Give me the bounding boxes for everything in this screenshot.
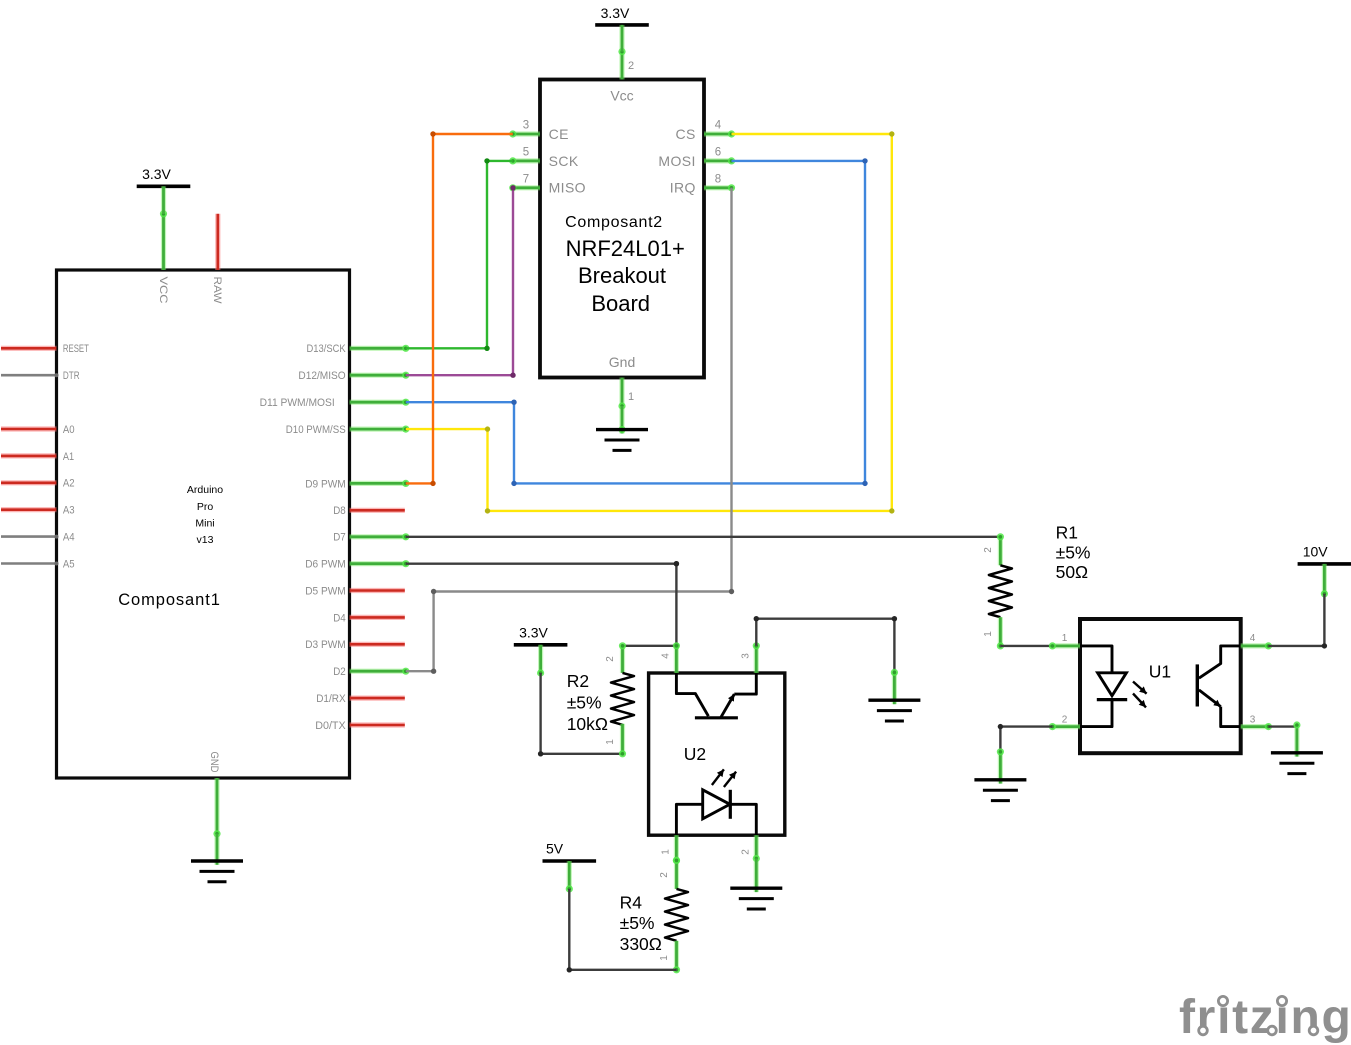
svg-text:4: 4 bbox=[661, 653, 672, 659]
svg-text:U1: U1 bbox=[1149, 661, 1171, 681]
pin D11 PWM/MOSI (Composant1) bbox=[260, 397, 410, 409]
wire 10V stub (green) bbox=[1321, 564, 1328, 598]
pin A3 (Composant1) bbox=[1, 505, 75, 517]
svg-text:6: 6 bbox=[715, 146, 721, 158]
svg-text:10V: 10V bbox=[1303, 544, 1329, 560]
IC Composant1 Arduino Pro Mini body bbox=[57, 270, 350, 778]
svg-text:CE: CE bbox=[549, 126, 569, 142]
ground (U2 pin3 net) bbox=[868, 700, 920, 721]
svg-text:fritzing: fritzing bbox=[1179, 991, 1351, 1044]
svg-text:5: 5 bbox=[523, 146, 529, 158]
wire 5V to R4 pin1 (black) bbox=[567, 889, 677, 973]
svg-text:A5: A5 bbox=[63, 558, 75, 570]
pin D1/RX (Composant1) bbox=[316, 693, 405, 705]
svg-text:D12/MISO: D12/MISO bbox=[298, 370, 346, 382]
fritzing logo bbox=[1179, 991, 1351, 1044]
wire D6 PWM to U2 pin4 (black) bbox=[406, 561, 679, 646]
svg-text:D6 PWM: D6 PWM bbox=[305, 559, 346, 571]
svg-text:1: 1 bbox=[659, 955, 670, 961]
svg-text:4: 4 bbox=[1250, 633, 1256, 644]
svg-text:50Ω: 50Ω bbox=[1056, 562, 1089, 582]
svg-text:NRF24L01+: NRF24L01+ bbox=[566, 236, 685, 261]
svg-text:R4: R4 bbox=[620, 893, 643, 913]
wire R2 top to U2 pin4 node (black) bbox=[623, 643, 680, 648]
svg-text:D4: D4 bbox=[333, 612, 346, 624]
svg-text:A4: A4 bbox=[63, 532, 75, 544]
svg-text:A1: A1 bbox=[63, 451, 74, 463]
svg-text:±5%: ±5% bbox=[567, 693, 602, 713]
svg-text:1: 1 bbox=[605, 739, 616, 745]
power +5V symbol bbox=[543, 841, 597, 862]
svg-text:1: 1 bbox=[983, 631, 994, 637]
svg-text:MOSI: MOSI bbox=[658, 153, 695, 169]
svg-text:Composant1: Composant1 bbox=[118, 591, 221, 609]
svg-text:3.3V: 3.3V bbox=[142, 166, 171, 182]
svg-text:Gnd: Gnd bbox=[609, 354, 635, 370]
svg-text:IRQ: IRQ bbox=[670, 180, 696, 196]
pin 6 (Composant2 right) bbox=[704, 146, 735, 164]
svg-text:R1: R1 bbox=[1056, 523, 1078, 543]
pin RAW (Composant1 top) bbox=[211, 214, 223, 304]
svg-text:D3 PWM: D3 PWM bbox=[305, 639, 346, 651]
svg-text:±5%: ±5% bbox=[1056, 543, 1091, 563]
pin 1 (U1) bbox=[1049, 633, 1080, 650]
wire D9 PWM to NRF CE (orange) bbox=[406, 131, 513, 486]
svg-text:v13: v13 bbox=[197, 534, 214, 546]
svg-text:1: 1 bbox=[661, 849, 672, 855]
svg-text:D7: D7 bbox=[333, 532, 346, 544]
svg-text:2: 2 bbox=[659, 872, 670, 878]
pin A4 (Composant1) bbox=[1, 532, 75, 544]
pin D12/MISO (Composant1) bbox=[298, 370, 409, 382]
pin A5 (Composant1) bbox=[1, 558, 75, 570]
optocoupler U1 body bbox=[1080, 619, 1241, 753]
pin D13/SCK (Composant1) bbox=[307, 343, 410, 355]
pin D4 (Composant1) bbox=[333, 612, 405, 624]
U2 phototransistor bbox=[676, 673, 756, 718]
pin VCC (Composant1 top) bbox=[157, 210, 169, 303]
optocoupler U2 body bbox=[649, 673, 785, 835]
svg-text:2: 2 bbox=[983, 547, 994, 553]
wire D13/SCK to NRF SCK (green) bbox=[406, 158, 513, 351]
svg-text:2: 2 bbox=[605, 656, 616, 662]
wire U2 pin2 to ground (green) bbox=[754, 859, 759, 893]
wire 3.3V to NRF Vcc (green) bbox=[619, 25, 624, 52]
pin RESET (Composant1) bbox=[1, 343, 89, 355]
svg-text:CS: CS bbox=[676, 126, 696, 142]
pin D3 PWM (Composant1) bbox=[305, 639, 405, 651]
U1 LED bbox=[1080, 646, 1147, 727]
svg-text:MISO: MISO bbox=[549, 180, 586, 196]
svg-text:2: 2 bbox=[741, 849, 752, 855]
svg-text:Pro: Pro bbox=[197, 501, 214, 513]
svg-text:GND: GND bbox=[208, 752, 220, 773]
wire NRF IRQ to D2 (gray) bbox=[406, 188, 734, 674]
wire U1 pin3 to ground (black) bbox=[1268, 725, 1297, 727]
svg-text:3.3V: 3.3V bbox=[519, 625, 548, 641]
svg-text:D5 PWM: D5 PWM bbox=[305, 585, 346, 597]
pin D2 (Composant1) bbox=[333, 666, 409, 678]
svg-text:D1/RX: D1/RX bbox=[316, 693, 346, 705]
resistor R4 330 bbox=[620, 857, 688, 974]
svg-text:Arduino: Arduino bbox=[187, 484, 223, 496]
svg-text:3: 3 bbox=[741, 653, 752, 659]
pin A2 (Composant1) bbox=[1, 478, 75, 490]
pin 2 (U2) bbox=[741, 835, 760, 862]
svg-text:D2: D2 bbox=[333, 666, 346, 678]
pin 8 (Composant2 right) bbox=[704, 173, 735, 191]
wire NRF Gnd to ground (green) bbox=[618, 406, 625, 434]
wire D12/MISO to NRF MISO (purple) bbox=[406, 185, 516, 378]
pin 2 Vcc (Composant2 top) bbox=[618, 48, 634, 80]
pin D10 PWM/SS (Composant1) bbox=[286, 424, 410, 436]
svg-text:10kΩ: 10kΩ bbox=[567, 714, 608, 734]
wire D7 to R1 (black) bbox=[406, 536, 1001, 538]
pin DTR (Composant1) bbox=[1, 370, 80, 382]
pin D7 (Composant1) bbox=[333, 532, 409, 544]
svg-text:VCC: VCC bbox=[157, 277, 169, 304]
power +3.3V symbol (R2 supply) bbox=[514, 625, 568, 645]
svg-text:D10 PWM/SS: D10 PWM/SS bbox=[286, 424, 346, 436]
pin 1 (U2) bbox=[661, 835, 681, 864]
wire D11 PWM/MOSI to NRF MOSI (blue) bbox=[406, 158, 868, 486]
pin D9 PWM (Composant1) bbox=[305, 478, 409, 490]
svg-text:Mini: Mini bbox=[195, 517, 214, 529]
svg-text:D8: D8 bbox=[333, 505, 346, 517]
svg-text:1: 1 bbox=[1062, 633, 1068, 644]
svg-text:R2: R2 bbox=[567, 671, 589, 691]
svg-text:D11 PWM/MOSI: D11 PWM/MOSI bbox=[260, 397, 335, 409]
svg-text:D13/SCK: D13/SCK bbox=[307, 343, 347, 355]
power +10V symbol bbox=[1298, 544, 1351, 564]
pin D8 (Composant1) bbox=[333, 505, 405, 517]
svg-text:D9 PWM: D9 PWM bbox=[305, 478, 346, 490]
svg-text:5V: 5V bbox=[546, 841, 564, 857]
pin D5 PWM (Composant1) bbox=[305, 585, 405, 597]
wire ground stub U1 pin2 (green) bbox=[997, 748, 1004, 783]
pin 3 (U2) bbox=[741, 642, 760, 673]
ground (Arduino GND) bbox=[191, 861, 243, 882]
svg-text:SCK: SCK bbox=[549, 153, 579, 169]
svg-text:2: 2 bbox=[1062, 714, 1068, 725]
svg-text:3: 3 bbox=[523, 120, 529, 132]
pin 4 (U2) bbox=[661, 642, 681, 673]
wire ground stub U1 pin3 (green) bbox=[1293, 721, 1300, 756]
svg-text:RAW: RAW bbox=[211, 277, 223, 304]
svg-text:4: 4 bbox=[715, 120, 722, 132]
svg-text:Breakout: Breakout bbox=[578, 263, 666, 288]
pin 2 (U1) bbox=[1049, 714, 1080, 730]
pin 3 (Composant2 left) bbox=[509, 120, 540, 138]
wire 3.3V to R2 pin1 (black) bbox=[538, 673, 623, 757]
svg-text:RESET: RESET bbox=[63, 343, 89, 355]
svg-text:1: 1 bbox=[628, 391, 634, 403]
svg-text:7: 7 bbox=[523, 173, 529, 185]
IC Composant2 NRF24L01+ Breakout Board body bbox=[540, 80, 704, 378]
svg-text:A2: A2 bbox=[63, 478, 75, 490]
wire U1 pin4 to 10V (black) bbox=[1268, 594, 1327, 649]
svg-text:8: 8 bbox=[715, 173, 721, 185]
svg-text:Composant2: Composant2 bbox=[565, 214, 663, 231]
ground (U1 pin2) bbox=[974, 780, 1026, 801]
pin 4 (U1) bbox=[1241, 633, 1272, 650]
svg-text:A0: A0 bbox=[63, 424, 75, 436]
pin D6 PWM (Composant1) bbox=[305, 559, 409, 571]
svg-text:A3: A3 bbox=[63, 505, 75, 517]
pin 4 (Composant2 right) bbox=[704, 120, 735, 138]
pin A1 (Composant1) bbox=[1, 451, 74, 463]
U2 LED bbox=[676, 769, 756, 835]
svg-text:Board: Board bbox=[591, 291, 650, 316]
resistor R1 50 bbox=[983, 523, 1091, 650]
ground (U1 pin3) bbox=[1271, 753, 1323, 774]
pin 1 Gnd (Composant2 bottom) bbox=[618, 378, 634, 410]
resistor R2 10k bbox=[567, 642, 634, 757]
pin 7 (Composant2 left) bbox=[509, 173, 540, 191]
svg-text:330Ω: 330Ω bbox=[620, 934, 662, 954]
wire 5V stub (green) bbox=[566, 861, 573, 893]
pin 5 (Composant2 left) bbox=[509, 146, 540, 164]
svg-text:2: 2 bbox=[628, 60, 634, 72]
ground (NRF Gnd) bbox=[596, 430, 648, 451]
U1 phototransistor bbox=[1197, 646, 1240, 727]
wire 3.3V to VCC (green) bbox=[161, 186, 166, 214]
svg-text:D0/TX: D0/TX bbox=[315, 720, 346, 732]
pin D0/TX (Composant1) bbox=[315, 720, 405, 732]
ground (U2 pin2) bbox=[730, 888, 782, 909]
wire U1 pin2 to ground (black) bbox=[998, 724, 1053, 752]
wire R1 to U1 pin1 (black) bbox=[1000, 645, 1052, 647]
pin GND (Composant1 bottom) bbox=[208, 752, 220, 838]
wire ground stub (green) bbox=[891, 669, 898, 704]
power +3.3V symbol (Arduino VCC) bbox=[137, 166, 191, 186]
wire 3.3V stub (green) bbox=[537, 645, 544, 677]
svg-text:3.3V: 3.3V bbox=[601, 5, 630, 21]
svg-text:3: 3 bbox=[1250, 714, 1256, 725]
power +3.3V symbol (NRF Vcc) bbox=[595, 5, 649, 25]
wire GND to ground (green) bbox=[214, 834, 219, 865]
wire U2 pin3 to ground (black) bbox=[754, 616, 898, 672]
svg-text:±5%: ±5% bbox=[620, 913, 655, 933]
svg-text:DTR: DTR bbox=[63, 370, 80, 382]
wire D10 PWM/SS to NRF CS (yellow) bbox=[406, 131, 895, 513]
svg-text:Vcc: Vcc bbox=[610, 88, 633, 104]
svg-text:U2: U2 bbox=[684, 744, 706, 764]
pin A0 (Composant1) bbox=[1, 424, 75, 436]
pin 3 (U1) bbox=[1241, 714, 1272, 730]
